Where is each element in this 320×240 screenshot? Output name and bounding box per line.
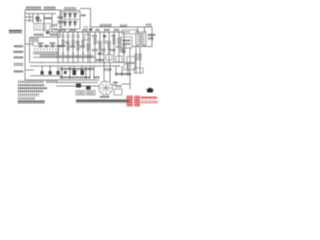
resistor R2 bbox=[113, 38, 115, 44]
box B2 right mid bbox=[124, 64, 130, 70]
text parts list line2 bbox=[18, 84, 45, 86]
relay blob K4 bbox=[81, 70, 85, 75]
cap C1 blob bbox=[103, 35, 106, 38]
wire column x68 bbox=[67, 32, 69, 63]
wire transformer bottom line bbox=[132, 46, 152, 48]
text label above y27 rail 2 bbox=[120, 24, 127, 27]
component blob X2 bbox=[46, 31, 49, 34]
text label IC1 bbox=[44, 17, 52, 19]
relay box K2 bbox=[121, 37, 132, 48]
text label transformer V bbox=[148, 34, 155, 37]
wire inner vertical x29.5 bbox=[29, 37, 31, 63]
resistor R3 bbox=[118, 38, 120, 44]
wire right col x140 lower bbox=[139, 66, 141, 74]
pin wires down bbox=[35, 48, 59, 52]
text caption bbox=[76, 99, 129, 103]
resistor boxes on mid columns bbox=[62, 40, 89, 50]
wire column x114 bbox=[113, 32, 115, 63]
wire bus2 y32 bbox=[50, 31, 130, 33]
wire right col x136 lower bbox=[135, 66, 137, 74]
wire harness drop x62 bbox=[61, 66, 63, 79]
wire drop x52 bbox=[51, 14, 53, 33]
wire bus3 y37 bbox=[30, 36, 60, 38]
wire motor feed x104 bbox=[103, 63, 105, 83]
text label cap box bbox=[115, 85, 122, 87]
wire column x90 bbox=[89, 32, 91, 63]
text label above circle bbox=[94, 76, 100, 78]
wire stub rail to IC bbox=[25, 43, 33, 45]
wire ic bottom rail bbox=[33, 56, 96, 58]
text parts list line7 bold bbox=[18, 101, 46, 104]
wire top rail bbox=[25, 9, 62, 11]
text label X3 bbox=[52, 24, 58, 26]
junction blob near x90 bbox=[89, 28, 92, 31]
logo big red character 1 bbox=[127, 96, 133, 107]
wire plug drop x42 bbox=[41, 66, 43, 71]
capacitor bars row below bus2 bbox=[61, 35, 80, 37]
contact box P1 bbox=[76, 91, 85, 96]
text plug labels bbox=[60, 77, 90, 80]
text label top mid bbox=[44, 7, 56, 10]
text label mid right a bbox=[96, 59, 104, 61]
wire plug drop x50 bbox=[49, 66, 51, 71]
resistor R5 bbox=[108, 44, 110, 50]
text left label 3 bbox=[13, 51, 23, 54]
resistor R9 bbox=[139, 54, 141, 60]
text parts list line3 bbox=[18, 87, 48, 89]
wire right drop x116 bbox=[115, 66, 117, 76]
wire inner vertical x33 bbox=[32, 14, 34, 24]
junction dots bus4 bbox=[41, 62, 119, 67]
logo small red text line1 bbox=[141, 97, 157, 100]
plug blob J2 bbox=[49, 71, 52, 75]
wire stub y70 left bbox=[25, 69, 34, 71]
wire drop x60 bbox=[59, 10, 61, 37]
text labels mid right bbox=[92, 49, 98, 51]
small box S1 bbox=[127, 57, 135, 63]
text left label 5 bbox=[14, 70, 23, 73]
text left label 2 bbox=[14, 45, 23, 48]
wire drop x38 bbox=[37, 14, 39, 24]
wire column x78 bbox=[77, 32, 79, 63]
wire top rail right segment bbox=[80, 9, 152, 28]
component box X1 bbox=[34, 24, 50, 31]
text label mid right b bbox=[104, 69, 112, 71]
text label rectifier bbox=[64, 7, 77, 10]
wire plug drop x82 bbox=[81, 66, 83, 70]
text labels above bus2 bbox=[58, 29, 65, 31]
text in contact box P1 bbox=[77, 92, 84, 94]
motor M1 bottom stub bbox=[103, 95, 108, 98]
motor M1 circle bbox=[99, 81, 113, 95]
resistor R8 bbox=[135, 54, 137, 60]
wire column x73 bbox=[72, 32, 74, 63]
wire harness drop x70 bbox=[69, 66, 71, 79]
wire harness y86 bbox=[56, 85, 100, 87]
resistor R4 bbox=[99, 44, 101, 50]
wire column x83 bbox=[82, 32, 84, 63]
relay blob K6 bbox=[86, 86, 91, 90]
wire harness drop x90 bbox=[89, 66, 91, 79]
capacitor box P3 bbox=[114, 89, 122, 95]
text left label mains bbox=[9, 30, 22, 33]
text label stacked c bbox=[97, 53, 103, 55]
wire harness y82.5 bbox=[56, 82, 98, 84]
wire inside rectifier box bbox=[63, 12, 80, 19]
wire bus4 y62.5 bbox=[30, 62, 133, 64]
diode row line bbox=[33, 42, 62, 47]
wire column x104 bbox=[103, 32, 105, 63]
small box S2 bbox=[127, 64, 135, 70]
plug blob J3 bbox=[57, 71, 60, 75]
publisher icon blob bbox=[147, 88, 154, 93]
rectifier output stubs bbox=[65, 29, 75, 32]
wire column x109 bbox=[108, 32, 110, 63]
wire right drop x122 bbox=[121, 66, 123, 76]
text label left of rectifier 2 bbox=[57, 21, 64, 23]
text parts list line5 bbox=[18, 94, 40, 96]
wire inner vertical x29.5b bbox=[29, 14, 31, 23]
wire right vertical x140 bbox=[139, 47, 141, 67]
rectifier diodes row1 bbox=[63, 12, 76, 19]
wire column x63 bbox=[62, 32, 64, 63]
wire right vertical x130 bbox=[129, 47, 131, 89]
wire harness drop x86 bbox=[85, 66, 87, 79]
component box on bus K1 bbox=[122, 30, 138, 34]
text labels right columns bbox=[115, 73, 131, 76]
cap C2 bars bbox=[103, 41, 107, 43]
wire motor feed x110 bbox=[109, 63, 111, 83]
wire drop x44 bbox=[43, 14, 45, 33]
text label top left bbox=[26, 7, 41, 10]
rectifier bridge U1 box bbox=[62, 11, 81, 30]
text label below circle bbox=[100, 96, 109, 98]
polarized cap below box bbox=[84, 27, 88, 29]
wire column x88 bbox=[87, 32, 89, 63]
text in contact box P2 bbox=[88, 92, 94, 94]
IC2 small box bbox=[31, 37, 38, 42]
text label 220 right of box bbox=[81, 14, 86, 16]
text parts list line1 bbox=[18, 80, 45, 82]
wire column x119 bbox=[118, 32, 120, 63]
box B3 right lower bbox=[134, 68, 143, 73]
text label above right rail bbox=[146, 24, 152, 26]
text row ic pin numbers left bbox=[40, 55, 56, 57]
wire right rail bbox=[151, 27, 153, 47]
wire harness drop x94 bbox=[93, 66, 95, 79]
text left label 3b bbox=[14, 56, 23, 59]
diode D8 bbox=[108, 52, 110, 54]
text row above bus4 bbox=[56, 55, 94, 58]
plug blob J1 bbox=[41, 71, 44, 75]
diode row tick labels bbox=[38, 42, 43, 44]
resistor R1 bbox=[94, 38, 96, 44]
wire column x124 bbox=[123, 32, 125, 63]
wire x130 to cap box bbox=[122, 76, 130, 84]
wire motor to cap box bbox=[112, 84, 116, 86]
text label transformer Hz bbox=[148, 38, 154, 41]
wire right drop x128 bbox=[127, 63, 129, 77]
text row below bus5 bbox=[60, 68, 94, 71]
resistor R7 blob bbox=[36, 17, 40, 20]
relay blob K5 bbox=[76, 84, 81, 88]
transformer B windings bbox=[136, 32, 146, 46]
wire column x58 bbox=[57, 32, 59, 63]
resistor R6 bbox=[123, 44, 125, 50]
junction dots bus2 bbox=[57, 31, 119, 32]
wire transformer taps bbox=[138, 27, 145, 47]
box B1 right mid bbox=[116, 56, 122, 62]
diode row D10-D13 bbox=[40, 45, 61, 48]
wire plug drop x74 bbox=[73, 66, 75, 70]
text left label 4 bbox=[14, 63, 23, 66]
small box right of caps bbox=[85, 35, 90, 41]
rectifier diodes row2 bbox=[63, 20, 76, 27]
text parts list line4 bbox=[18, 90, 44, 92]
wire column x95 bbox=[94, 32, 96, 63]
wire bottom rail y80 bbox=[25, 79, 99, 81]
diode marks on mid columns bbox=[62, 53, 84, 55]
wire column x100 bbox=[99, 32, 101, 63]
box B0 mid right bbox=[106, 55, 112, 61]
IC pin number row text bbox=[33, 52, 59, 55]
wire stub y20 bbox=[25, 20, 33, 22]
wire plug drop x58b bbox=[57, 66, 59, 71]
diode D7 bbox=[99, 52, 101, 54]
scattered value labels bbox=[36, 19, 126, 53]
wire bus5 y66 bbox=[30, 65, 120, 67]
wire plug strip bottom line bbox=[30, 75, 62, 77]
wire left rail bbox=[24, 10, 26, 80]
plug blob J4 bbox=[64, 71, 67, 74]
text label left of rectifier 1 bbox=[57, 16, 63, 18]
component X1 ticks bbox=[37, 25, 46, 30]
motor M1 internal wires bbox=[100, 82, 113, 95]
wire stub y17 bbox=[25, 16, 33, 18]
text labels above IC box bbox=[34, 33, 44, 36]
logo small red text line2 bbox=[141, 101, 158, 103]
wire sub rail y13.5 bbox=[25, 13, 56, 15]
text label right of circle bbox=[113, 82, 118, 84]
wire right vertical x136 bbox=[135, 47, 137, 67]
contact box P2 bbox=[87, 91, 95, 96]
logo big red character 2 bbox=[134, 96, 140, 107]
relay blob K3 bbox=[73, 70, 77, 75]
text parts list line6 bbox=[18, 97, 36, 99]
text label above y27 rail bbox=[100, 24, 112, 27]
